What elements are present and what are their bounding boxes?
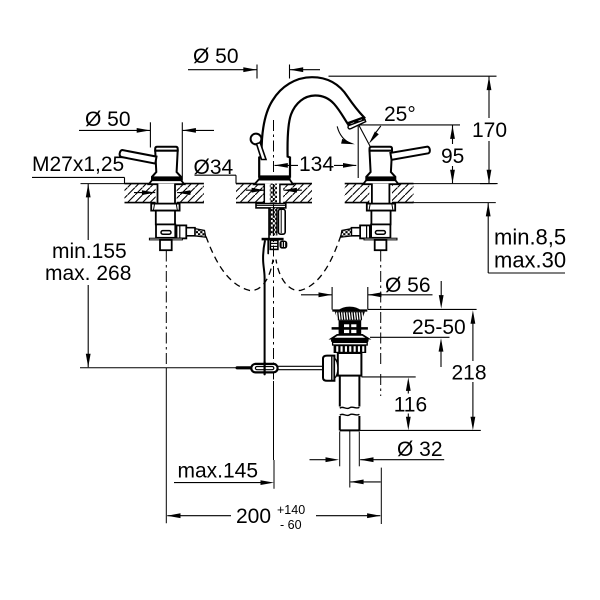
- svg-text:134: 134: [299, 153, 334, 176]
- spout under-deck flange: [256, 204, 286, 208]
- left valve body tube: [156, 211, 175, 225]
- drain centerline extension below: [349, 431, 351, 488]
- deck top extension line right: [414, 183, 496, 185]
- svg-text:Ø 56: Ø 56: [385, 274, 431, 297]
- right flexible hose dashed: [276, 236, 341, 291]
- left valve skirt: [149, 180, 184, 184]
- svg-text:min.8,5: min.8,5: [494, 225, 566, 250]
- drain plug knurled band: [335, 312, 365, 321]
- deck bottom extension line right: [414, 202, 496, 204]
- right valve centerline: [380, 251, 382, 365]
- 200 dim right extension: [380, 468, 382, 524]
- right valve cap: [370, 147, 393, 151]
- left valve lever handle: [120, 150, 157, 164]
- right valve outlet hex nut: [360, 225, 370, 238]
- svg-text:- 60: - 60: [280, 518, 302, 532]
- right valve hose tube: [351, 228, 360, 236]
- left valve base band: [152, 176, 182, 180]
- drain ball joint ball: [334, 358, 338, 378]
- pop-up wire through link: [264, 362, 266, 374]
- drain pin through cage: [332, 327, 368, 330]
- left valve locknut: [151, 204, 179, 211]
- svg-text:max.145: max.145: [178, 460, 259, 483]
- right valve cartridge block: [371, 224, 390, 237]
- svg-text:95: 95: [441, 145, 464, 168]
- dim Ø34 arrows spout hole: [246, 189, 265, 191]
- left flexible hose dashed: [206, 237, 273, 291]
- right valve lever handle: [390, 147, 429, 160]
- spout threaded shank below: [270, 208, 277, 236]
- drain ball joint boss: [323, 356, 334, 381]
- tailpipe edge extensions: [339, 432, 341, 467]
- left valve inlet stub: [160, 240, 172, 250]
- drain flange top line: [332, 309, 367, 311]
- svg-text:25°: 25°: [384, 103, 416, 126]
- svg-text:M27x1,25: M27x1,25: [32, 153, 124, 176]
- drain lever rod outline: [278, 365, 323, 367]
- right valve body tube: [371, 211, 390, 225]
- tailpipe break squiggle: [340, 407, 360, 408]
- right valve washer plate: [364, 238, 397, 240]
- counter deck left section: [125, 184, 204, 203]
- svg-text:Ø 50: Ø 50: [193, 45, 239, 68]
- left valve oval slot: [161, 231, 171, 235]
- pop-up rod clamp bar: [262, 238, 284, 241]
- counter deck right section: [345, 184, 414, 203]
- svg-text:218: 218: [452, 361, 487, 384]
- pop-up lever knob ball: [251, 134, 262, 145]
- drain rubber washer: [331, 339, 369, 342]
- right valve inlet stub: [375, 240, 387, 250]
- left valve handle body: [152, 151, 181, 181]
- spout column black band: [258, 176, 290, 180]
- left valve washer plate: [149, 238, 182, 240]
- drain bell flange: [331, 335, 368, 339]
- right valve handle body: [366, 151, 395, 181]
- right valve braided hose end: [341, 229, 352, 238]
- spout skirt: [254, 180, 293, 185]
- drain strainer cage: [339, 320, 362, 334]
- left valve outlet hex nut: [177, 225, 187, 238]
- spout hose nipple: [278, 209, 285, 234]
- clamp thumbscrew knob: [280, 241, 288, 249]
- pop-up lift wire: [263, 240, 265, 374]
- right valve oval slot: [375, 231, 385, 235]
- left valve braided hose end: [195, 229, 206, 238]
- spout threaded shank through deck: [264, 184, 280, 204]
- 25deg angled line: [359, 125, 371, 147]
- pop-up rod end cap: [267, 240, 269, 253]
- svg-text:116: 116: [394, 393, 427, 416]
- drain waste body: [338, 353, 362, 376]
- left valve shank through deck: [158, 184, 176, 204]
- drain plug dome: [339, 307, 361, 311]
- right valve base band: [366, 176, 396, 180]
- spout aerator slits: [351, 120, 362, 124]
- spout aerator collar: [348, 120, 366, 129]
- counter deck middle section: [236, 184, 312, 203]
- left valve hose tube: [186, 228, 195, 236]
- linkage oval link: [251, 364, 277, 373]
- svg-text:min.155: min.155: [52, 240, 127, 263]
- lever rod thin left line: [80, 367, 237, 369]
- spout centerline: [273, 120, 275, 176]
- right valve skirt: [363, 180, 398, 184]
- clamp ribbed boss: [270, 240, 278, 249]
- right valve shank through deck: [372, 184, 390, 204]
- svg-text:200: 200: [236, 505, 271, 528]
- spout gooseneck: [259, 77, 364, 176]
- svg-text:Ø 32: Ø 32: [397, 438, 443, 461]
- drain tailpipe: [340, 376, 360, 431]
- deck top extension line left: [81, 183, 125, 185]
- svg-text:max. 268: max. 268: [45, 262, 131, 285]
- svg-text:+140: +140: [277, 503, 305, 517]
- pop-up lever stem: [257, 143, 267, 160]
- svg-text:max.30: max.30: [494, 248, 566, 273]
- drain locknut castellated: [333, 342, 368, 353]
- svg-text:Ø 50: Ø 50: [85, 108, 131, 131]
- right valve locknut: [367, 204, 395, 211]
- lever rod left segment: [237, 366, 251, 369]
- 25deg leader arrow: [375, 126, 381, 133]
- left valve centerline: [165, 251, 167, 368]
- spout aerator band: [347, 117, 365, 125]
- dim Ø34 arrows left valve hole: [134, 192, 155, 194]
- left valve cap: [155, 147, 178, 151]
- left valve cartridge block: [156, 224, 175, 237]
- max145 extension line: [273, 460, 275, 489]
- svg-text:170: 170: [472, 119, 507, 142]
- svg-text:25-50: 25-50: [412, 316, 466, 339]
- pop-up rod upper: [268, 208, 270, 238]
- 25deg angle arc: [337, 126, 351, 143]
